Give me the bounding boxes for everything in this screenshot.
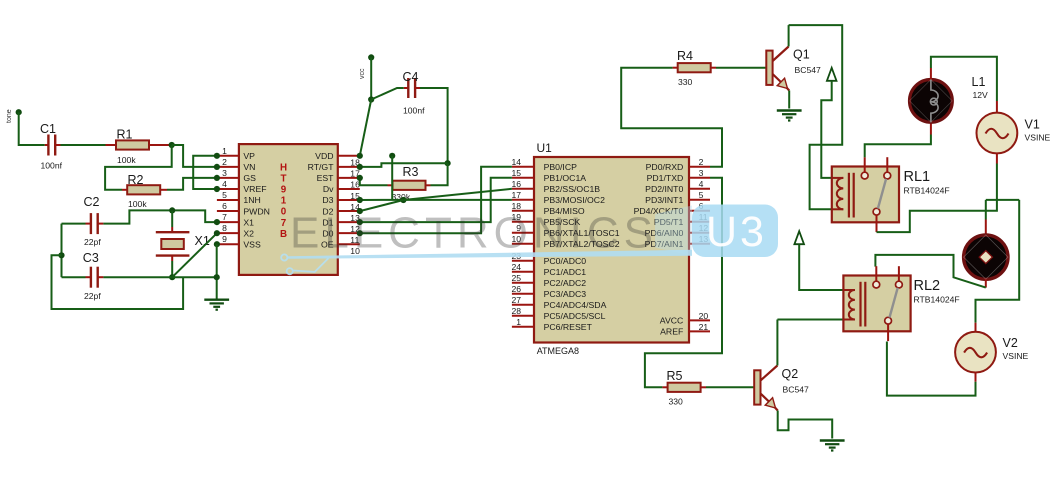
svg-text:PB3/MOSI/OC2: PB3/MOSI/OC2 xyxy=(544,195,605,205)
R3 value 330k xyxy=(392,192,411,202)
transistor Q2 BC547 xyxy=(754,366,778,411)
Q1 label xyxy=(793,48,810,62)
RL2 value RTB14024F xyxy=(914,295,960,305)
crystal X1 xyxy=(156,232,190,255)
wire R4 to Q1 base xyxy=(711,67,767,69)
svg-text:PC3/ADC3: PC3/ADC3 xyxy=(544,289,587,299)
capacitor C4 xyxy=(408,78,415,98)
svg-text:U1: U1 xyxy=(537,141,553,155)
svg-text:PWDN: PWDN xyxy=(243,206,270,216)
wire D0 pin11 to PB0 xyxy=(360,167,512,233)
wire Q1 collector to RL1 coil xyxy=(789,25,843,209)
svg-text:100k: 100k xyxy=(117,155,136,165)
C3 value 22pf xyxy=(84,291,101,301)
svg-text:4: 4 xyxy=(222,179,227,189)
svg-text:L1: L1 xyxy=(972,75,986,89)
U2 part label HT9170B (vertical) xyxy=(280,163,287,240)
wire pin17 RT/GT to junction xyxy=(360,163,448,167)
svg-text:14: 14 xyxy=(511,157,521,167)
Q1 value BC547 xyxy=(795,65,821,75)
RL1 label xyxy=(904,169,931,185)
svg-text:R2: R2 xyxy=(128,173,144,187)
node crystal bottom junction xyxy=(169,274,175,280)
ground Q2 xyxy=(820,441,845,451)
wire junction to R3 right xyxy=(426,163,448,185)
source V1 VSINE xyxy=(977,113,1018,154)
svg-text:3: 3 xyxy=(222,168,227,178)
capacitor C1 xyxy=(48,135,55,156)
C4 label xyxy=(403,70,419,84)
wire vcc down xyxy=(370,57,372,99)
wire PD0 to R4 xyxy=(621,68,722,167)
svg-text:PB0/ICP: PB0/ICP xyxy=(544,162,578,172)
power +V arrow 1 xyxy=(827,68,837,81)
svg-text:330: 330 xyxy=(678,77,693,87)
svg-text:9: 9 xyxy=(281,185,287,196)
wire C2 to crystal top rail xyxy=(103,210,216,223)
node crystal top junction xyxy=(169,207,175,213)
capacitor C3 xyxy=(91,267,98,288)
svg-text:PD0/RXD: PD0/RXD xyxy=(646,162,684,172)
svg-text:12V: 12V xyxy=(973,90,989,100)
svg-text:RL2: RL2 xyxy=(914,278,941,294)
L1 value 12V xyxy=(973,90,989,100)
svg-text:7: 7 xyxy=(222,212,227,222)
svg-text:1: 1 xyxy=(281,196,287,207)
svg-text:6: 6 xyxy=(222,201,227,211)
wire RL1 sw1 to lamp bottom xyxy=(865,123,931,157)
node dangling junction above D3 rail xyxy=(389,153,395,159)
svg-text:100nf: 100nf xyxy=(41,161,63,171)
wire fan bottom to RL2 sw1 xyxy=(875,255,985,288)
svg-text:PD1/TXD: PD1/TXD xyxy=(647,173,684,183)
svg-text:VSINE: VSINE xyxy=(1025,133,1051,143)
svg-text:28: 28 xyxy=(511,306,521,316)
V1 label xyxy=(1025,118,1040,132)
svg-text:EST: EST xyxy=(317,173,335,183)
svg-text:VSS: VSS xyxy=(243,239,261,249)
svg-text:22pf: 22pf xyxy=(84,237,101,247)
node pin1 xyxy=(214,153,220,159)
L1 label xyxy=(972,75,986,89)
wire vcc to pin18 VDD (diagonal) xyxy=(360,100,371,156)
node C2-C3 left junction xyxy=(58,252,64,258)
node pin17 xyxy=(357,164,363,170)
node R1-VN junction xyxy=(169,142,175,148)
U2 right pins 18-10 VDD RT/GT EST Dv D3 D2 D1 D0 OE xyxy=(308,151,360,256)
wire Q1 emitter to ground xyxy=(788,91,790,109)
resistor R1 xyxy=(116,140,149,149)
V2 value VSINE xyxy=(1003,351,1029,361)
RL2 label xyxy=(914,278,941,294)
svg-text:AREF: AREF xyxy=(660,327,683,337)
svg-text:C2: C2 xyxy=(84,195,100,209)
capacitor C2 xyxy=(86,213,104,234)
R4 label xyxy=(677,49,693,63)
svg-text:R4: R4 xyxy=(677,49,693,63)
R5 label xyxy=(667,369,683,383)
U2 left pins 1-9 VP VN GS VREF 1NH PWDN X1 X2 VSS xyxy=(217,146,270,250)
svg-text:1: 1 xyxy=(222,146,227,156)
node pin16 xyxy=(357,175,363,181)
svg-text:ATMEGA8: ATMEGA8 xyxy=(537,346,579,356)
transistor Q1 BC547 xyxy=(766,47,789,91)
wire crystal bottom stem xyxy=(171,256,173,278)
wire V2 bottom to RL2 sw3 xyxy=(887,342,976,396)
svg-text:15: 15 xyxy=(511,168,521,178)
svg-text:0: 0 xyxy=(281,207,287,218)
svg-text:5: 5 xyxy=(222,190,227,200)
wire C2 left loop xyxy=(62,224,86,278)
R2 value 100k xyxy=(128,199,147,209)
wire D1 pin12 to PB1 xyxy=(360,178,512,222)
wire crystal top stem xyxy=(171,210,173,231)
C3 label xyxy=(83,251,99,265)
svg-text:RT/GT: RT/GT xyxy=(308,162,335,172)
svg-text:C4: C4 xyxy=(403,70,419,84)
U1 left pins PB0-PB7 xyxy=(511,157,619,249)
node pin9 VSS xyxy=(214,241,220,247)
svg-text:vcc: vcc xyxy=(359,68,366,79)
X1 label xyxy=(195,234,210,248)
svg-text:R1: R1 xyxy=(117,128,133,142)
svg-text:C3: C3 xyxy=(83,251,99,265)
wire PD1 to R5 xyxy=(645,178,722,387)
svg-text:BC547: BC547 xyxy=(783,385,809,395)
svg-text:7: 7 xyxy=(281,218,287,229)
svg-text:VSINE: VSINE xyxy=(1003,351,1029,361)
svg-text:PC6/RESET: PC6/RESET xyxy=(544,322,593,332)
svg-text:PC5/ADC5/SCL: PC5/ADC5/SCL xyxy=(544,311,606,321)
svg-text:3: 3 xyxy=(699,168,704,178)
svg-text:22pf: 22pf xyxy=(84,291,101,301)
svg-text:1: 1 xyxy=(516,317,521,327)
svg-text:V2: V2 xyxy=(1003,336,1018,350)
svg-text:X1: X1 xyxy=(243,217,254,227)
C2 label xyxy=(84,195,100,209)
svg-text:AVCC: AVCC xyxy=(660,316,684,326)
wire tone to C1 xyxy=(19,112,49,145)
V1 value VSINE xyxy=(1025,133,1051,143)
svg-text:16: 16 xyxy=(511,179,521,189)
node pin7 X1 xyxy=(214,219,220,225)
wire outer ground loop xyxy=(52,255,184,309)
ground Q1 xyxy=(777,111,802,121)
U1 right pins AVCC AREF xyxy=(660,311,710,337)
U1 designator xyxy=(537,141,553,155)
wire pin9 VSS down xyxy=(216,244,218,300)
power +V arrow 2 xyxy=(794,231,804,244)
svg-text:VDD: VDD xyxy=(315,151,333,161)
lamp L1 12V xyxy=(910,80,953,123)
wire pin1 VP to pin4 VREF xyxy=(193,156,217,189)
svg-text:27: 27 xyxy=(511,295,521,305)
svg-text:20: 20 xyxy=(699,311,709,321)
svg-text:PD2/INT0: PD2/INT0 xyxy=(645,184,683,194)
svg-text:PC1/ADC1: PC1/ADC1 xyxy=(544,267,587,277)
C1 label xyxy=(40,122,56,136)
wire C3 row xyxy=(62,276,91,278)
svg-text:100k: 100k xyxy=(128,199,147,209)
svg-text:VN: VN xyxy=(243,162,255,172)
R1 label xyxy=(117,128,133,142)
svg-text:RTB14024F: RTB14024F xyxy=(914,295,960,305)
wire dangling vertical xyxy=(391,156,393,200)
svg-text:tone: tone xyxy=(6,109,13,123)
svg-text:VP: VP xyxy=(243,151,255,161)
wire vcc to C4 (diagonal) xyxy=(371,88,409,100)
svg-text:PB2/SS/OC1B: PB2/SS/OC1B xyxy=(544,184,601,194)
svg-text:X1: X1 xyxy=(195,234,210,248)
R1 lead to node xyxy=(149,144,172,146)
node pin11 D0 xyxy=(357,230,363,236)
R5 value 330 xyxy=(669,397,684,407)
svg-text:R5: R5 xyxy=(667,369,683,383)
wire pin16 EST to R3 left xyxy=(360,178,393,185)
wire Q1 collector up xyxy=(788,25,790,46)
watermark electronics hub xyxy=(281,206,692,275)
RL1 value RTB14024F xyxy=(904,186,950,196)
svg-text:25: 25 xyxy=(511,273,521,283)
svg-text:VREF: VREF xyxy=(243,184,266,194)
wire Q2 emitter to ground xyxy=(778,411,833,439)
svg-text:T: T xyxy=(281,174,287,185)
svg-text:PC0/ADC0: PC0/ADC0 xyxy=(544,256,587,266)
node pin14 D3 xyxy=(357,197,363,203)
wire V2 top rail drop xyxy=(976,200,1020,332)
svg-text:GS: GS xyxy=(243,173,256,183)
wire power2 to RL2 coil top xyxy=(799,245,843,290)
svg-text:5: 5 xyxy=(699,190,704,200)
wire V1 bottom to RL1 sw3 xyxy=(877,153,997,232)
node pin2 xyxy=(214,164,220,170)
relay RL2 RTB14024F xyxy=(843,266,910,341)
R1 value 100k xyxy=(117,155,136,165)
svg-text:24: 24 xyxy=(511,262,521,272)
resistor R4 xyxy=(678,63,711,72)
wire C3 to VSS column xyxy=(98,276,217,278)
wire VN node to R2 left xyxy=(105,145,172,190)
wire power1 to RL1 coil top xyxy=(821,81,832,178)
node D3 rail junction xyxy=(400,197,406,203)
svg-text:Q1: Q1 xyxy=(793,48,810,62)
IC U1 ATMEGA8 body xyxy=(534,157,689,343)
svg-text:H: H xyxy=(280,163,287,174)
relay RL1 RTB14024F xyxy=(832,157,899,232)
svg-text:4: 4 xyxy=(699,179,704,189)
wire V1 top lead xyxy=(996,101,998,113)
U1 value ATMEGA8 xyxy=(537,346,579,356)
V2 label xyxy=(1003,336,1018,350)
IC U2 HT9170B DTMF decoder body xyxy=(239,144,338,275)
svg-text:2: 2 xyxy=(222,157,227,167)
U1 left pins PC0-PC6 xyxy=(511,251,606,332)
svg-text:U3: U3 xyxy=(706,208,767,256)
wire fan top xyxy=(985,200,987,236)
wire lamp top xyxy=(931,57,997,101)
svg-text:B: B xyxy=(280,229,287,240)
wire D2 pin13 diagonal to junction xyxy=(360,200,404,211)
svg-text:V1: V1 xyxy=(1025,118,1040,132)
Q2 value BC547 xyxy=(783,385,809,395)
resistor R3 xyxy=(393,181,426,190)
node pin4 xyxy=(214,186,220,192)
svg-text:9: 9 xyxy=(222,234,227,244)
R3 label xyxy=(403,165,419,179)
svg-text:PB1/OC1A: PB1/OC1A xyxy=(544,173,587,183)
svg-text:RL1: RL1 xyxy=(904,169,931,185)
svg-text:R3: R3 xyxy=(403,165,419,179)
resistor R5 xyxy=(668,383,701,392)
wire fan-V2 top rail xyxy=(986,199,1019,201)
svg-text:BC547: BC547 xyxy=(795,65,821,75)
C1 value 100nf xyxy=(41,161,63,171)
svg-text:21: 21 xyxy=(699,322,709,332)
wire Q2 collector to RL2 coil xyxy=(777,320,843,366)
svg-text:PC4/ADC4/SDA: PC4/ADC4/SDA xyxy=(544,300,607,310)
resistor R2 xyxy=(127,185,160,194)
wire C4 right to R3 junction xyxy=(415,88,448,163)
svg-text:PC2/ADC2: PC2/ADC2 xyxy=(544,278,587,288)
svg-text:1NH: 1NH xyxy=(243,195,260,205)
watermark hub logo block xyxy=(692,205,778,258)
wire crystal to pin8 X2 (diagonal) xyxy=(172,233,217,277)
node tone terminal xyxy=(6,109,22,123)
svg-text:D3: D3 xyxy=(322,195,333,205)
ground VSS xyxy=(204,300,229,310)
wire C1 to R1 xyxy=(55,144,116,146)
svg-text:8: 8 xyxy=(222,223,227,233)
svg-text:Dv: Dv xyxy=(323,184,334,194)
wire R5 to Q2 base xyxy=(701,386,755,388)
C4 value 100nf xyxy=(403,106,425,116)
svg-text:PD3/INT1: PD3/INT1 xyxy=(645,195,683,205)
node vcc junction xyxy=(368,96,374,102)
C2 value 22pf xyxy=(84,237,101,247)
Q2 label xyxy=(782,367,799,381)
svg-text:100nf: 100nf xyxy=(403,106,425,116)
wire VN node to pin2 xyxy=(172,145,217,167)
svg-text:X2: X2 xyxy=(243,228,254,238)
wire D3 pin14 to PB3 xyxy=(360,199,512,201)
node pin18 xyxy=(357,153,363,159)
source V2 VSINE xyxy=(955,332,996,373)
svg-text:Q2: Q2 xyxy=(782,367,799,381)
U1 right pins PD0-PD7 xyxy=(634,157,710,249)
svg-text:RTB14024F: RTB14024F xyxy=(904,186,950,196)
R4 value 330 xyxy=(678,77,693,87)
svg-text:330: 330 xyxy=(669,397,684,407)
fan/motor M1 xyxy=(964,235,1008,279)
node vcc terminal xyxy=(359,54,374,79)
node pin3 xyxy=(214,175,220,181)
svg-text:ELECTRONICS: ELECTRONICS xyxy=(290,209,658,258)
node pin8 X2 xyxy=(214,230,220,236)
node VSS-ground junction xyxy=(214,274,220,280)
wire junction diagonal to PB2 xyxy=(403,189,512,200)
svg-text:17: 17 xyxy=(511,190,521,200)
node pin12 D1 xyxy=(357,219,363,225)
R2 label xyxy=(128,173,144,187)
wire R2 to pin3 GS xyxy=(160,178,217,190)
svg-text:2: 2 xyxy=(699,157,704,167)
node C4-R3-RTGT junction xyxy=(445,160,451,166)
svg-text:26: 26 xyxy=(511,284,521,294)
node pin13 D2 xyxy=(357,208,363,214)
svg-text:C1: C1 xyxy=(40,122,56,136)
